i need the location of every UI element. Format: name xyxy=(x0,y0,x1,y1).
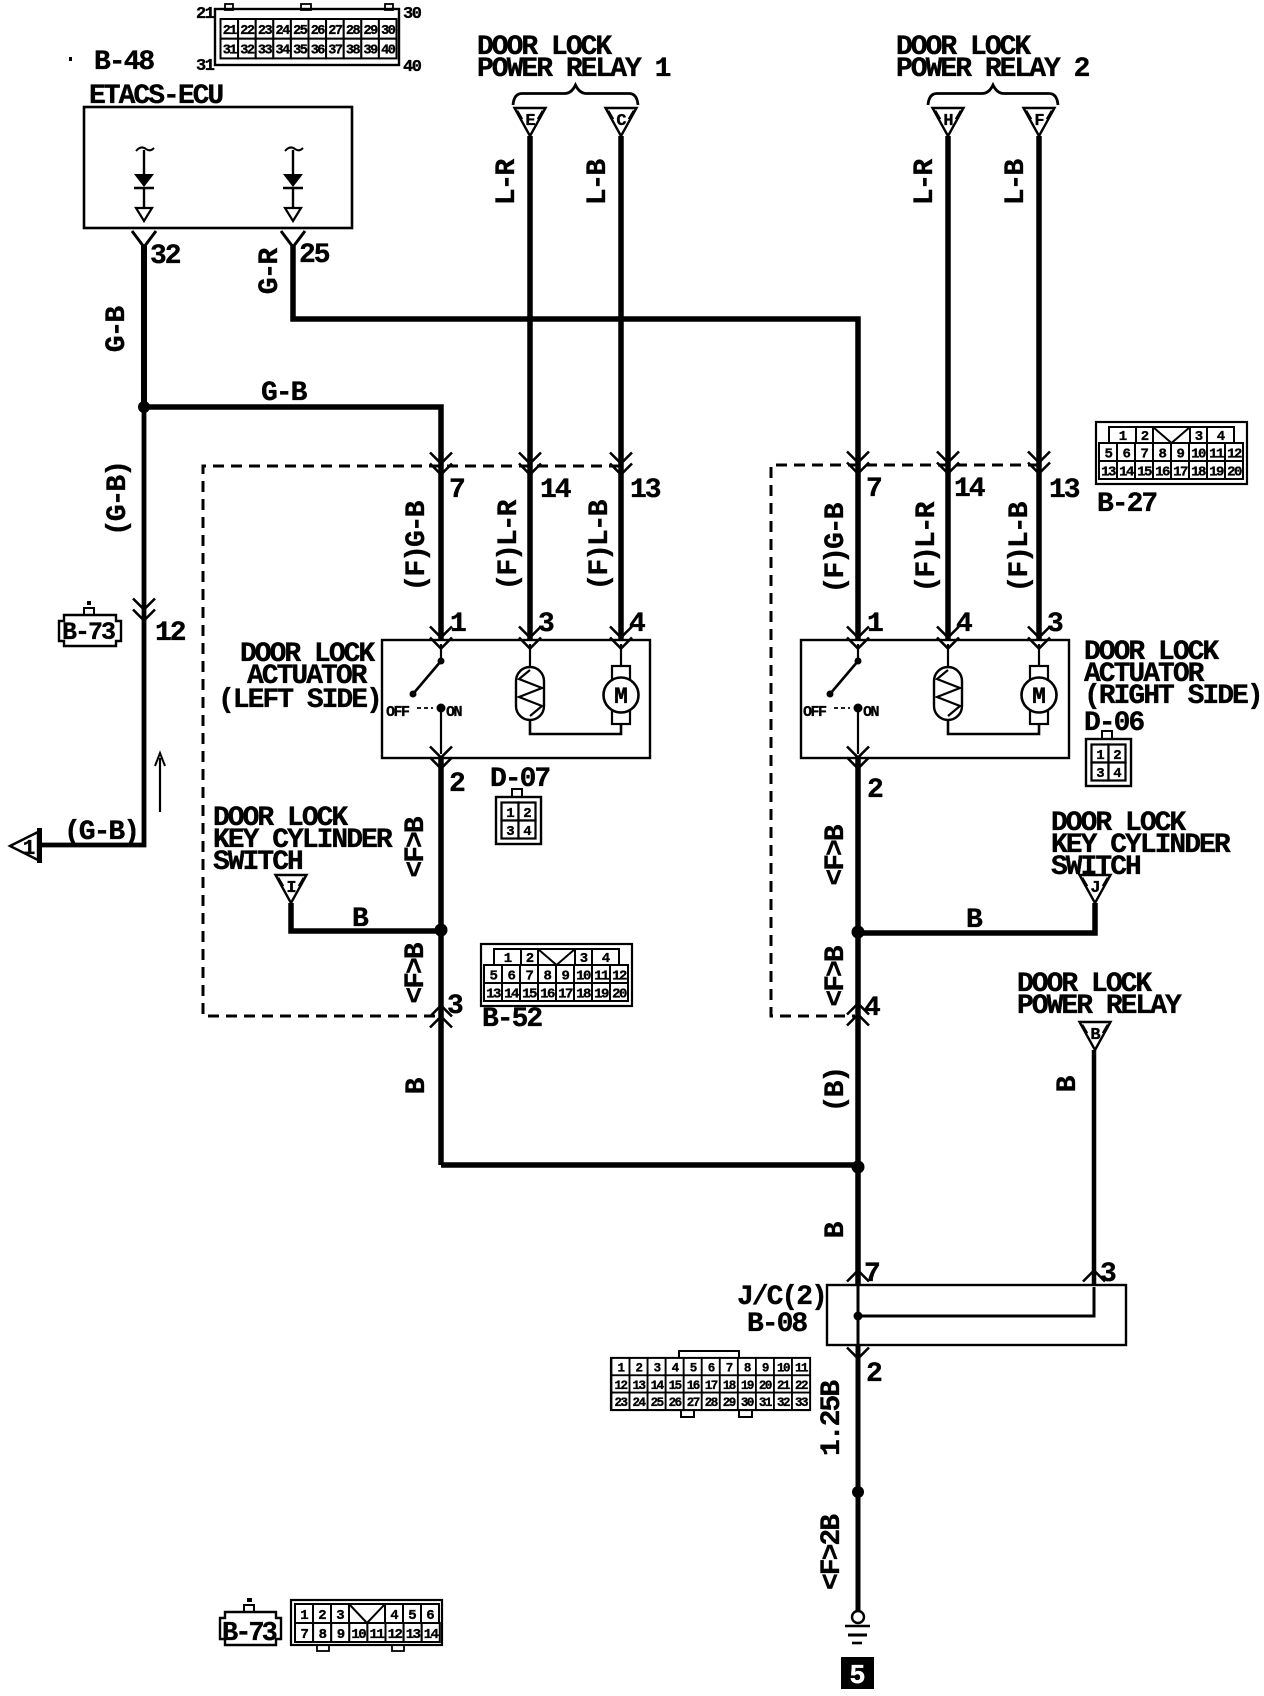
svg-text:<F>B: <F>B xyxy=(401,816,432,877)
svg-text:12: 12 xyxy=(388,1627,403,1643)
pin 7 chevron J/C xyxy=(847,1271,869,1282)
svg-text:H: H xyxy=(943,112,953,131)
svg-text:4: 4 xyxy=(629,609,645,640)
svg-text:3: 3 xyxy=(447,991,463,1022)
junction dot right xyxy=(852,926,865,939)
connector terminal F (relay 2) xyxy=(1024,108,1055,136)
svg-text:G-B: G-B xyxy=(102,306,133,353)
pin 2 chevrons below left (D-07) xyxy=(430,747,452,758)
svg-text:B: B xyxy=(1053,1075,1084,1092)
svg-text:13: 13 xyxy=(406,1627,421,1643)
svg-text:(F)G-B: (F)G-B xyxy=(402,500,433,591)
motor left (D-07) xyxy=(604,644,639,724)
svg-text:40: 40 xyxy=(381,44,396,59)
svg-text:B: B xyxy=(821,1221,852,1238)
svg-text:18: 18 xyxy=(723,1379,736,1393)
svg-text:B: B xyxy=(402,1077,433,1094)
wire B left horizontal to junction xyxy=(441,1162,858,1168)
wire B key cylinder right xyxy=(858,903,1095,933)
svg-text:15: 15 xyxy=(669,1379,682,1393)
svg-text:16: 16 xyxy=(540,987,555,1003)
diode D1 (pin 32 branch) xyxy=(134,147,154,221)
svg-text:4: 4 xyxy=(1113,766,1121,782)
connector icon B-08 xyxy=(611,1351,810,1417)
svg-text:3: 3 xyxy=(1047,609,1063,640)
junction dot left xyxy=(435,924,448,937)
svg-text:3: 3 xyxy=(506,824,514,840)
svg-text:18: 18 xyxy=(576,987,591,1003)
svg-text:28: 28 xyxy=(346,24,361,39)
svg-text:1: 1 xyxy=(450,609,466,640)
svg-text:31: 31 xyxy=(223,44,238,59)
svg-text:OFF: OFF xyxy=(386,704,410,721)
svg-text:7: 7 xyxy=(301,1627,309,1643)
pin 12 chevrons on G-B wire xyxy=(133,599,155,610)
svg-text:D-06: D-06 xyxy=(1084,708,1144,739)
connector terminal C (relay 1) xyxy=(606,108,637,136)
wire resistor-motor right (D-06) xyxy=(948,720,1039,734)
svg-text:2: 2 xyxy=(449,769,465,800)
svg-text:L-R: L-R xyxy=(910,159,941,206)
svg-text:B: B xyxy=(1090,1026,1100,1045)
svg-text:33: 33 xyxy=(258,44,273,59)
svg-text:1: 1 xyxy=(23,838,36,861)
direction arrow up xyxy=(159,758,161,812)
connector icon B-73 (bottom label plate) xyxy=(220,1598,281,1649)
wire G-B branch to left door circuit xyxy=(144,407,441,640)
svg-text:37: 37 xyxy=(328,44,343,59)
pin 25 chevron xyxy=(281,231,305,247)
actuator box left (D-07) xyxy=(382,640,650,758)
pin 13 chevrons (right) xyxy=(1028,452,1050,463)
connector icon B-27 xyxy=(1096,422,1247,484)
svg-text:<F>2B: <F>2B xyxy=(817,1514,848,1590)
svg-text:13: 13 xyxy=(1101,465,1116,481)
svg-text:24: 24 xyxy=(633,1396,647,1410)
wire J/C to ground xyxy=(856,1344,861,1611)
svg-text:8: 8 xyxy=(319,1627,327,1643)
wire right main (pin2 down to J/C box) xyxy=(855,758,861,1286)
svg-text:1.25B: 1.25B xyxy=(817,1380,848,1456)
pin 2 chevron below J/C xyxy=(847,1348,869,1359)
svg-text:B-73: B-73 xyxy=(222,1619,277,1649)
wire B from power relay xyxy=(1092,1050,1097,1285)
svg-text:ON: ON xyxy=(863,704,880,721)
svg-text:20: 20 xyxy=(612,987,627,1003)
svg-text:1: 1 xyxy=(867,609,883,640)
svg-text:19: 19 xyxy=(1209,465,1224,481)
svg-text:32: 32 xyxy=(777,1396,790,1410)
svg-text:<F>B: <F>B xyxy=(401,942,432,1003)
svg-text:38: 38 xyxy=(346,44,361,59)
pin 7 chevrons (left) xyxy=(430,453,452,464)
svg-text:6: 6 xyxy=(426,1608,434,1624)
svg-text:14: 14 xyxy=(651,1379,665,1393)
wire (G-B) junction down to bottom-left arrow xyxy=(40,405,144,845)
resistor right (D-06) xyxy=(934,644,962,720)
svg-text:34: 34 xyxy=(275,44,290,59)
svg-text:7: 7 xyxy=(726,1362,733,1376)
svg-text:25: 25 xyxy=(293,24,308,39)
svg-text:(F)G-B: (F)G-B xyxy=(821,502,852,593)
dashed box left door xyxy=(203,466,620,1016)
pin 14 chevrons (left) xyxy=(519,453,541,464)
connector icon B-48 pin grid (pins 21-40) xyxy=(215,4,399,65)
svg-text:2: 2 xyxy=(318,1608,326,1624)
svg-text:(F)L-B: (F)L-B xyxy=(1005,501,1036,592)
svg-text:5: 5 xyxy=(849,1662,865,1692)
svg-text:4: 4 xyxy=(523,824,531,840)
svg-text:13: 13 xyxy=(630,475,661,506)
svg-text:8: 8 xyxy=(744,1362,751,1376)
svg-text:L-R: L-R xyxy=(492,159,523,206)
motor right (D-06) xyxy=(1022,644,1057,724)
svg-text:(G-B): (G-B) xyxy=(103,462,134,536)
svg-text:4: 4 xyxy=(390,1608,398,1624)
svg-text:22: 22 xyxy=(795,1379,808,1393)
svg-text:2: 2 xyxy=(867,775,883,806)
svg-text:12: 12 xyxy=(155,618,186,649)
pin 3 chevrons (left dashed bottom) xyxy=(430,1006,452,1017)
svg-text:7: 7 xyxy=(449,475,464,506)
wire L-R relay2 H xyxy=(945,136,951,640)
connector terminal E (relay 1) xyxy=(515,108,546,136)
svg-text:31: 31 xyxy=(759,1396,772,1410)
svg-text:J: J xyxy=(1090,879,1099,898)
brace relay 2 xyxy=(928,85,1058,105)
svg-text:14: 14 xyxy=(424,1627,439,1643)
svg-text:L-B: L-B xyxy=(1001,159,1032,206)
svg-text:11: 11 xyxy=(369,1627,384,1643)
svg-text:31: 31 xyxy=(196,57,215,76)
pin chevrons into actuator left (D-07) xyxy=(430,627,452,638)
wire resistor-motor left (D-07) xyxy=(530,720,621,734)
resistor left (D-07) xyxy=(516,644,544,720)
svg-text:B-73: B-73 xyxy=(62,618,115,647)
pin 2 chevrons below right (D-06) xyxy=(847,747,869,758)
svg-text:(LEFT SIDE): (LEFT SIDE) xyxy=(218,685,381,716)
wire L-B relay2 F xyxy=(1036,136,1042,640)
svg-text:4: 4 xyxy=(864,993,880,1024)
ground symbol xyxy=(845,1611,870,1643)
svg-text:21: 21 xyxy=(777,1379,790,1393)
diode D2 (pin 25 branch) xyxy=(283,147,303,221)
svg-text:11: 11 xyxy=(795,1362,808,1376)
svg-text:B-08: B-08 xyxy=(747,1309,807,1340)
wire G-R from pin 25 right to right door circuit xyxy=(293,246,858,640)
actuator box right (D-06) xyxy=(801,640,1069,758)
svg-text:12: 12 xyxy=(614,1379,627,1393)
svg-text:1: 1 xyxy=(617,1362,624,1376)
svg-text:1: 1 xyxy=(300,1608,308,1624)
svg-text:3: 3 xyxy=(336,1608,344,1624)
svg-text:20: 20 xyxy=(1227,465,1242,481)
svg-text:30: 30 xyxy=(741,1396,754,1410)
svg-text:24: 24 xyxy=(275,24,290,39)
svg-text:(B): (B) xyxy=(821,1068,852,1112)
svg-text:M: M xyxy=(1032,684,1046,710)
svg-text:M: M xyxy=(614,684,628,710)
svg-text:17: 17 xyxy=(558,987,573,1003)
svg-text:14: 14 xyxy=(504,987,519,1003)
svg-text:I: I xyxy=(286,879,295,898)
svg-text:SWITCH: SWITCH xyxy=(213,847,302,878)
page number 5 xyxy=(841,1657,874,1692)
wire <F>B left (pin2 down) xyxy=(438,758,444,1165)
wire G-B from pin 32 down to junction xyxy=(141,246,147,410)
svg-text:10: 10 xyxy=(777,1362,790,1376)
svg-text:(G-B): (G-B) xyxy=(64,817,138,848)
svg-text:18: 18 xyxy=(1191,465,1206,481)
svg-text:C: C xyxy=(616,112,626,131)
connector icon B-73 (left) xyxy=(59,601,121,647)
svg-text:<F>B: <F>B xyxy=(821,945,852,1006)
svg-text:<F>B: <F>B xyxy=(821,824,852,885)
svg-text:(F)L-R: (F)L-R xyxy=(494,499,525,590)
svg-text:29: 29 xyxy=(723,1396,736,1410)
svg-text:6: 6 xyxy=(708,1362,715,1376)
pin 14 chevrons (right) xyxy=(937,452,959,463)
junction dot ground wire xyxy=(852,1486,864,1498)
pin 32 chevron xyxy=(132,231,156,247)
svg-text:23: 23 xyxy=(258,24,273,39)
svg-text:25: 25 xyxy=(651,1396,664,1410)
svg-text:27: 27 xyxy=(328,24,343,39)
pin chevrons into actuator right (D-06) xyxy=(847,627,869,638)
svg-text:27: 27 xyxy=(687,1396,700,1410)
pin 13 chevrons (left) xyxy=(610,453,632,464)
svg-text:39: 39 xyxy=(363,44,378,59)
connector terminal I key cylinder left xyxy=(276,875,307,903)
svg-text:E: E xyxy=(525,112,535,131)
svg-text:15: 15 xyxy=(1137,465,1152,481)
svg-text:26: 26 xyxy=(311,24,326,39)
label B-48 xyxy=(69,57,72,61)
svg-text:21: 21 xyxy=(223,24,238,39)
connector terminal B power relay xyxy=(1080,1022,1111,1050)
svg-text:POWER RELAY 2: POWER RELAY 2 xyxy=(896,54,1090,85)
svg-text:33: 33 xyxy=(795,1396,808,1410)
svg-text:36: 36 xyxy=(311,44,326,59)
svg-text:16: 16 xyxy=(687,1379,700,1393)
svg-text:B: B xyxy=(966,905,983,936)
svg-text:22: 22 xyxy=(240,24,255,39)
connector terminal H (relay 2) xyxy=(933,108,964,136)
junction box J/C(2) B-08 xyxy=(827,1285,1126,1345)
pin 7 chevrons (right) xyxy=(847,452,869,463)
svg-text:13: 13 xyxy=(1049,475,1080,506)
switch right (D-06) xyxy=(803,644,880,754)
svg-text:17: 17 xyxy=(705,1379,718,1393)
connector icon D-06 xyxy=(1086,731,1131,786)
connector icon B-52 xyxy=(481,944,632,1006)
svg-text:2: 2 xyxy=(636,1362,643,1376)
brace relay 1 xyxy=(513,85,638,105)
J/C internal wire xyxy=(858,1287,1094,1316)
svg-text:7: 7 xyxy=(866,474,881,505)
svg-text:13: 13 xyxy=(486,987,501,1003)
svg-text:POWER RELAY 1: POWER RELAY 1 xyxy=(477,54,671,85)
switch left (D-07) xyxy=(386,644,463,754)
svg-text:POWER RELAY: POWER RELAY xyxy=(1017,991,1182,1022)
svg-text:3: 3 xyxy=(1096,766,1104,782)
svg-text:5: 5 xyxy=(690,1362,697,1376)
svg-text:30: 30 xyxy=(403,5,422,24)
pin 3 chevron J/C xyxy=(1083,1271,1105,1282)
svg-text:B-52: B-52 xyxy=(482,1004,542,1035)
wire L-R relay1 E xyxy=(527,136,533,640)
connector terminal J key cylinder right xyxy=(1080,875,1111,903)
svg-text:14: 14 xyxy=(954,474,985,505)
svg-text:B: B xyxy=(352,904,369,935)
wire inside J/C box xyxy=(857,1285,860,1345)
junction dot right main xyxy=(852,1161,865,1174)
svg-text:3: 3 xyxy=(538,609,554,640)
svg-text:19: 19 xyxy=(594,987,609,1003)
svg-text:B-27: B-27 xyxy=(1097,489,1156,520)
connector icon B-73 pin grid xyxy=(291,1600,442,1651)
svg-text:OFF: OFF xyxy=(803,704,827,721)
svg-text:10: 10 xyxy=(351,1627,366,1643)
svg-text:3: 3 xyxy=(654,1362,661,1376)
svg-text:B-48: B-48 xyxy=(94,47,154,78)
svg-text:29: 29 xyxy=(363,24,378,39)
svg-text:40: 40 xyxy=(403,58,422,77)
svg-text:14: 14 xyxy=(540,475,571,506)
svg-text:20: 20 xyxy=(759,1379,772,1393)
svg-text:(F)L-B: (F)L-B xyxy=(585,499,616,590)
svg-text:9: 9 xyxy=(762,1362,769,1376)
svg-text:9: 9 xyxy=(337,1627,345,1643)
svg-text:14: 14 xyxy=(1119,465,1134,481)
svg-text:23: 23 xyxy=(614,1396,627,1410)
svg-text:28: 28 xyxy=(705,1396,718,1410)
svg-text:13: 13 xyxy=(633,1379,646,1393)
wire L-B relay1 C xyxy=(618,136,624,640)
svg-text:4: 4 xyxy=(956,609,972,640)
svg-text:5: 5 xyxy=(408,1608,416,1624)
junction G-B xyxy=(138,401,150,413)
wire B key cylinder left xyxy=(291,903,441,931)
dashed box right door xyxy=(771,465,1039,1016)
ECU box B-48 ETACS-ECU xyxy=(84,107,352,228)
svg-text:17: 17 xyxy=(1173,465,1188,481)
svg-text:16: 16 xyxy=(1155,465,1170,481)
svg-text:2: 2 xyxy=(866,1359,882,1390)
svg-text:35: 35 xyxy=(293,44,308,59)
svg-text:15: 15 xyxy=(522,987,537,1003)
svg-text:19: 19 xyxy=(741,1379,754,1393)
svg-text:F: F xyxy=(1034,112,1044,131)
svg-text:ON: ON xyxy=(446,704,463,721)
svg-text:(F)L-R: (F)L-R xyxy=(912,501,943,592)
svg-text:30: 30 xyxy=(381,24,396,39)
J/C internal junction dot xyxy=(854,1312,863,1321)
svg-text:D-07: D-07 xyxy=(490,764,549,795)
svg-text:G-R: G-R xyxy=(255,248,286,295)
svg-text:32: 32 xyxy=(150,241,181,272)
svg-text:21: 21 xyxy=(196,5,215,24)
off-page arrow 1 (G-B) xyxy=(10,828,40,863)
svg-text:25: 25 xyxy=(299,240,330,271)
connector icon D-07 xyxy=(496,789,541,844)
svg-text:26: 26 xyxy=(669,1396,682,1410)
pin 4 chevrons (right dashed bottom) xyxy=(847,1004,869,1015)
svg-text:G-B: G-B xyxy=(261,378,308,409)
svg-text:32: 32 xyxy=(240,44,255,59)
svg-text:L-B: L-B xyxy=(583,159,614,206)
